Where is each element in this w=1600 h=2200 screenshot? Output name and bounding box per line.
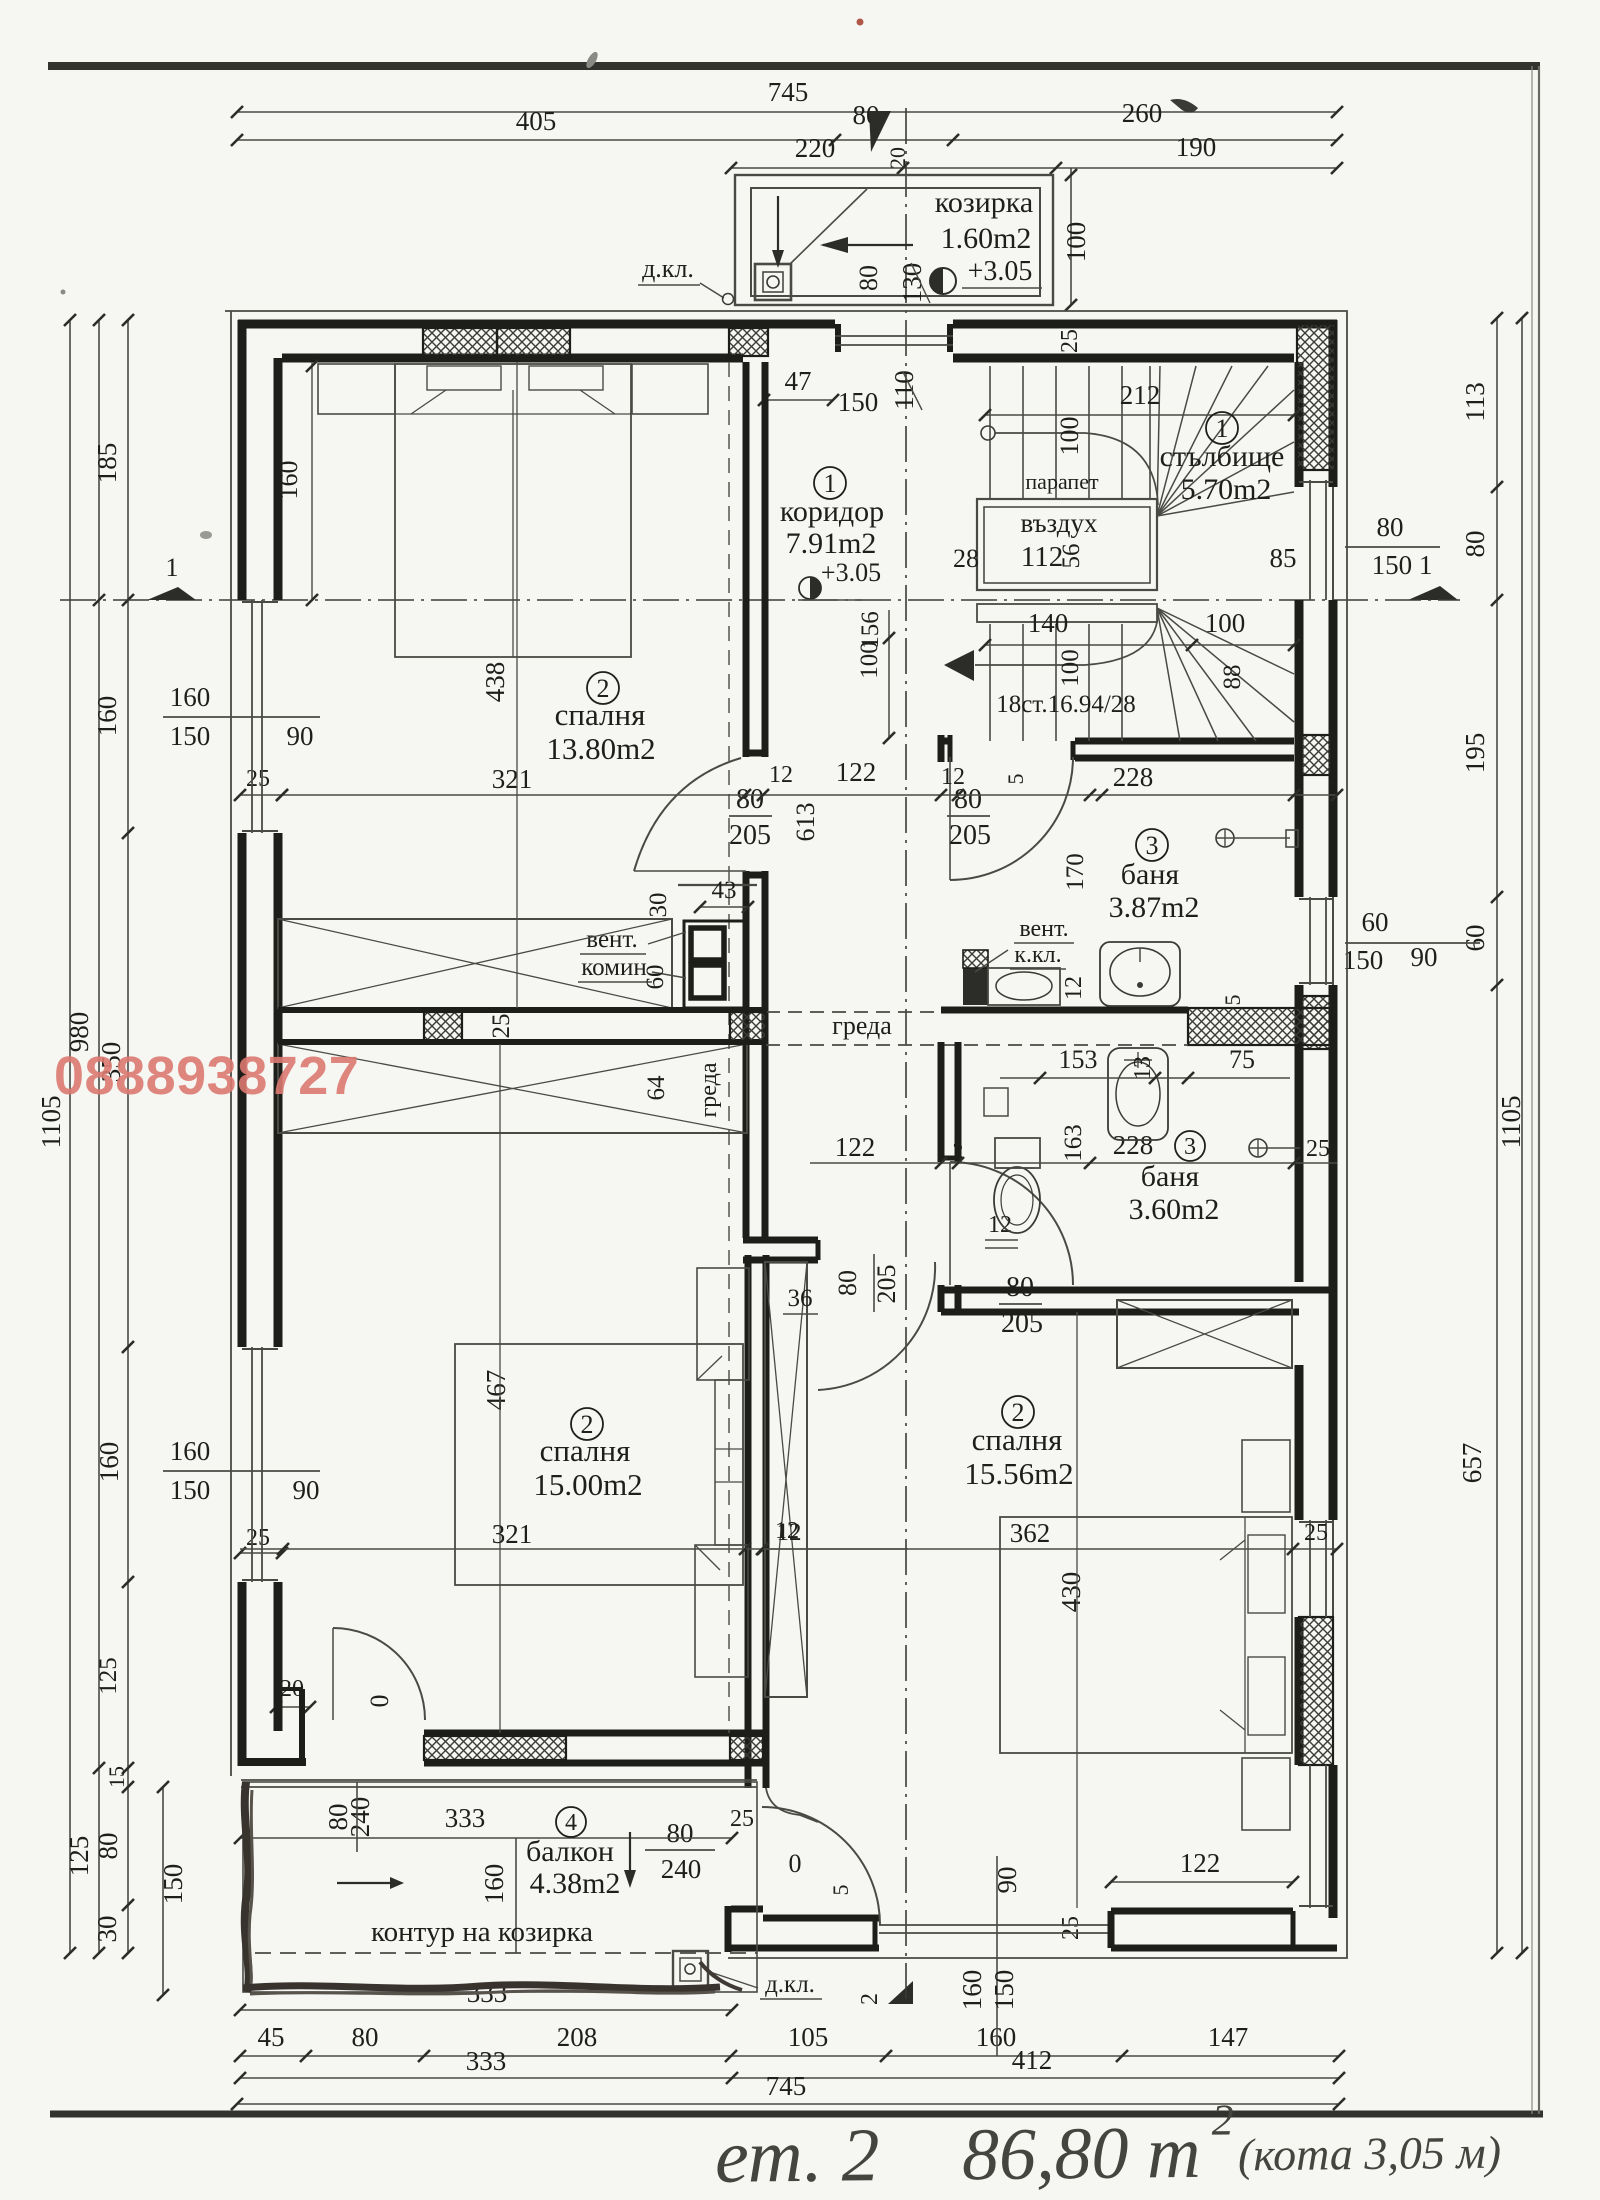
svg-text:греда: греда: [832, 1011, 892, 1040]
left window upper: [251, 600, 253, 833]
dim 47-150 under wall: [764, 399, 833, 401]
svg-text:30: 30: [645, 893, 672, 918]
balcony room label: [556, 1807, 586, 1837]
balcony pencil scribble bottom: [243, 1985, 720, 1989]
bath2 toilet: [995, 1138, 1040, 1168]
bath1 shower tap: [1216, 829, 1234, 847]
svg-text:150: 150: [989, 1970, 1019, 2011]
door arc bedroom15.56 entry: [818, 1262, 935, 1390]
corridor room label: [814, 467, 846, 499]
svg-text:15.56m2: 15.56m2: [964, 1456, 1073, 1491]
svg-text:185: 185: [92, 443, 122, 484]
section 1 right marker: [1408, 586, 1458, 600]
svg-text:220: 220: [795, 133, 836, 163]
svg-text:170: 170: [1062, 853, 1089, 891]
dim 333 balcony: [240, 1837, 732, 1839]
chimney flue 1: [691, 928, 724, 960]
svg-text:25: 25: [488, 1014, 515, 1039]
svg-text:13: 13: [1130, 1056, 1156, 1080]
svg-text:80: 80: [1460, 531, 1490, 558]
svg-text:5: 5: [828, 1885, 853, 1896]
wardrobe X bedroom15.00: [278, 1044, 747, 1133]
scan speck 1: [584, 50, 600, 70]
svg-text:195: 195: [1460, 733, 1490, 774]
bottom wall piece left of 15.56: [731, 1906, 763, 1913]
svg-text:163: 163: [1060, 1124, 1087, 1162]
section 2 top marker: [869, 111, 891, 152]
bed bedroom15.56: [1000, 1517, 1292, 1753]
svg-text:43: 43: [712, 877, 737, 904]
window label 60/150 90 right: [1345, 942, 1480, 944]
right wall inner face: [1295, 362, 1304, 487]
svg-text:2: 2: [1211, 2095, 1234, 2144]
stairwell room label: [1206, 412, 1238, 444]
chimney flue 2: [691, 965, 724, 998]
wall band between closets: [278, 1007, 766, 1013]
dim 100 corridor vertical: [888, 610, 890, 738]
balcony threshold lines: [241, 1779, 757, 1781]
central wall lower bedroom15.00: [745, 1255, 752, 1788]
canopy outer rect: [735, 175, 1053, 305]
svg-text:80: 80: [352, 2022, 379, 2052]
svg-text:парапет: парапет: [1025, 469, 1099, 494]
bath1 room label: [1136, 829, 1168, 861]
left wall outer face: [238, 320, 247, 600]
bath2 bottom wall: [941, 1287, 1333, 1294]
stair dim 140-100: [985, 644, 1294, 646]
svg-text:150 1: 150 1: [1372, 550, 1433, 580]
svg-text:405: 405: [516, 106, 557, 136]
bath2 sink: [1108, 1048, 1168, 1140]
outer contour line: [225, 311, 1347, 1958]
svg-text:110: 110: [889, 370, 919, 410]
svg-text:745: 745: [766, 2071, 807, 2101]
svg-text:321: 321: [492, 1519, 533, 1549]
svg-text:438: 438: [480, 662, 510, 703]
svg-text:321: 321: [492, 764, 533, 794]
svg-text:3: 3: [1146, 831, 1159, 860]
canopy vertical dim 100: [1070, 168, 1072, 305]
svg-text:коридор: коридор: [780, 495, 884, 528]
dim chain 405-80-260: [237, 139, 1337, 141]
svg-text:25: 25: [730, 1806, 754, 1832]
svg-text:стълбище: стълбище: [1160, 440, 1285, 473]
svg-text:467: 467: [481, 1370, 511, 1411]
section 2 bottom marker: [888, 1981, 913, 2004]
svg-text:160: 160: [170, 1436, 211, 1466]
svg-text:260: 260: [1122, 98, 1163, 128]
svg-text:4: 4: [565, 1810, 577, 1836]
bedroom15.00 dims 321-12: [240, 1548, 908, 1550]
balcony right arrow: [337, 1882, 392, 1884]
svg-text:2: 2: [857, 1993, 883, 2005]
top wall outer face: [238, 320, 835, 329]
rounded contour bottom of wall: [766, 1788, 818, 1822]
section 1 left marker: [147, 587, 196, 600]
svg-text:208: 208: [557, 2022, 598, 2052]
svg-text:125: 125: [95, 1657, 122, 1695]
bedroom1 room label: [587, 672, 619, 704]
svg-text:спалня: спалня: [540, 1433, 631, 1468]
left wall inner face: [274, 358, 283, 600]
svg-text:240: 240: [661, 1854, 702, 1884]
bath1 small sink on shaft: [988, 968, 1060, 1005]
left dim line 1105: [69, 320, 71, 1953]
kontur na kozirka dashed line: [255, 1952, 757, 1954]
canopy inner rect: [751, 188, 1040, 296]
balcony door threshold 15.56: [879, 1924, 1111, 1926]
svg-text:12: 12: [988, 1212, 1012, 1238]
svg-text:4.38m2: 4.38m2: [530, 1867, 621, 1900]
bath1 vent shaft: [963, 968, 988, 1005]
svg-text:комин: комин: [581, 954, 646, 981]
svg-text:228: 228: [1113, 1130, 1154, 1160]
svg-text:60: 60: [1362, 907, 1389, 937]
svg-text:баня: баня: [1121, 858, 1180, 891]
svg-text:15: 15: [104, 1766, 129, 1788]
right wall hatch pier beam: [1301, 996, 1331, 1049]
svg-text:150: 150: [838, 387, 879, 417]
border frame top line: [48, 62, 1540, 70]
svg-text:140: 140: [1028, 608, 1069, 638]
svg-text:2: 2: [953, 1138, 964, 1163]
nightstand 15.56 bottom: [1242, 1758, 1290, 1830]
beam hatch block: [1188, 1008, 1330, 1045]
svg-text:12: 12: [1061, 976, 1087, 1000]
svg-text:25: 25: [1306, 1136, 1330, 1162]
svg-text:45: 45: [258, 2022, 285, 2052]
svg-text:333: 333: [445, 1803, 486, 1833]
svg-text:90: 90: [1411, 942, 1438, 972]
svg-text:85: 85: [1270, 543, 1297, 573]
left dim chain 185-160-350-160-125-15-80-30: [127, 320, 129, 1953]
svg-text:спалня: спалня: [972, 1422, 1063, 1457]
svg-text:130: 130: [897, 263, 927, 304]
svg-text:122: 122: [836, 757, 877, 787]
stair walking line: [975, 433, 1158, 665]
canopy left arrow: [823, 244, 913, 246]
svg-text:въздух: въздух: [1021, 508, 1098, 538]
svg-text:745: 745: [768, 77, 809, 107]
svg-text:613: 613: [791, 803, 820, 842]
svg-text:80: 80: [667, 1818, 694, 1848]
bed bedroom1: [395, 364, 631, 657]
svg-text:1.60m2: 1.60m2: [941, 222, 1032, 255]
svg-text:контур на козирка: контур на козирка: [371, 1916, 593, 1948]
svg-text:105: 105: [788, 2022, 829, 2052]
bath2 toilet2 small: [984, 1088, 1008, 1116]
dim 80/240 fraction bottom: [645, 1849, 715, 1851]
door arc bath1: [950, 757, 1073, 880]
bath1 left jamb wall: [948, 735, 953, 762]
svg-text:90: 90: [293, 1475, 320, 1505]
svg-text:3.60m2: 3.60m2: [1129, 1193, 1220, 1226]
svg-text:112: 112: [1021, 541, 1063, 573]
svg-text:122: 122: [1180, 1848, 1221, 1878]
corridor axis dashed: [728, 362, 730, 1733]
svg-text:64: 64: [643, 1075, 670, 1101]
svg-text:333: 333: [466, 2046, 507, 2076]
stair treads upper flight: [989, 366, 991, 499]
dim 25 upper-left wall: [240, 794, 282, 796]
svg-text:86,80 m: 86,80 m: [962, 2112, 1201, 2196]
svg-text:657: 657: [1457, 1443, 1487, 1484]
svg-text:150: 150: [1343, 945, 1384, 975]
bottom wall piece right 15.56: [1111, 1908, 1293, 1915]
bedroom15.00 bottom wall hatches: [424, 1736, 566, 1760]
left dim 150 balcony: [162, 1787, 164, 1995]
bath dim 12-5-228: [958, 794, 1337, 796]
svg-text:100: 100: [1205, 608, 1246, 638]
svg-text:160: 160: [92, 696, 122, 737]
svg-text:д.кл.: д.кл.: [642, 254, 694, 283]
central wall bedroom1-corridor: [743, 362, 750, 757]
dim 25 lower-left wall: [240, 1552, 282, 1554]
svg-text:205: 205: [872, 1265, 901, 1304]
vent column bedroom15.00 upper: [697, 1268, 749, 1380]
svg-text:160: 160: [274, 461, 303, 500]
svg-text:80: 80: [854, 265, 883, 291]
svg-text:12: 12: [941, 764, 965, 790]
bath2 shower tap: [1249, 1139, 1267, 1157]
bedroom15.00 bottom wall: [424, 1730, 766, 1737]
bedroom15.56 room label: [1002, 1396, 1034, 1428]
bath2 dims 122-2-163-228-25: [810, 1162, 1337, 1164]
svg-text:1: 1: [824, 469, 837, 498]
top wall hatch pier mid: [729, 328, 768, 356]
bath2 left wall: [938, 1042, 945, 1162]
right wall hatch pier bedroom: [1299, 1617, 1333, 1765]
window label 160/150 90 upper: [163, 716, 320, 718]
svg-text:160: 160: [94, 1442, 124, 1483]
svg-text:150: 150: [170, 1475, 211, 1505]
chimney top line: [678, 884, 757, 886]
svg-text:вент.: вент.: [586, 926, 637, 953]
svg-text:100: 100: [1055, 417, 1084, 456]
svg-text:7.91m2: 7.91m2: [786, 527, 877, 560]
svg-text:+3.05: +3.05: [968, 256, 1033, 287]
svg-text:балкон: балкон: [526, 1835, 614, 1868]
svg-text:160: 160: [479, 1864, 509, 1905]
right wall outer face: [1332, 320, 1334, 1918]
svg-text:+3.05: +3.05: [821, 558, 881, 587]
svg-text:56: 56: [1058, 544, 1085, 569]
canopy down arrow: [777, 196, 779, 252]
svg-text:80: 80: [833, 1270, 862, 1296]
bath2 dims 153 13 75: [1000, 1077, 1290, 1079]
svg-text:15.00m2: 15.00m2: [533, 1467, 642, 1502]
bedroom right window lower: [1309, 1765, 1311, 1908]
beam dashed lines greda: [766, 1011, 941, 1013]
svg-text:88: 88: [1219, 665, 1246, 690]
scan speck 5: [61, 290, 66, 295]
vazduh opening parapet: [977, 499, 1157, 590]
svg-text:0888938727: 0888938727: [54, 1046, 359, 1106]
door arc bath2: [950, 1162, 1073, 1285]
svg-text:12: 12: [775, 1518, 799, 1544]
dim 122 bottom right: [1111, 1881, 1293, 1883]
svg-text:150: 150: [158, 1864, 188, 1905]
svg-text:ет. 2: ет. 2: [715, 2113, 880, 2199]
top wall hatch pier left: [423, 328, 497, 356]
nightstand 15.56 top: [1242, 1440, 1290, 1512]
stair winder fan upper: [1157, 366, 1160, 516]
door arc balcony 15.00: [333, 1628, 425, 1720]
svg-text:13.80m2: 13.80m2: [546, 731, 655, 766]
svg-text:25: 25: [246, 1525, 270, 1551]
svg-text:3.87m2: 3.87m2: [1109, 891, 1200, 924]
svg-text:430: 430: [1056, 1572, 1086, 1613]
svg-text:36: 36: [788, 1285, 813, 1312]
scan speck 3: [857, 19, 864, 26]
bedroom1 dim line 321-12-122: [282, 794, 958, 796]
stair direction arrow: [944, 650, 974, 681]
vent column bedroom15.00 lower: [695, 1545, 748, 1677]
canopy diagonal: [790, 189, 867, 264]
window label 160/150 90 lower: [163, 1470, 320, 1472]
parapet lower band: [977, 604, 1157, 622]
svg-text:5.70m2: 5.70m2: [1181, 473, 1272, 506]
svg-text:47: 47: [785, 366, 812, 396]
section line 1-1 horizontal: [60, 599, 1460, 601]
svg-text:25: 25: [1304, 1520, 1328, 1546]
svg-text:1: 1: [1216, 414, 1229, 443]
stair-bath wall horizontal: [941, 738, 952, 745]
svg-text:1: 1: [166, 553, 179, 582]
svg-text:30: 30: [92, 1916, 122, 1943]
corridor bottom wall: [743, 1237, 818, 1244]
dim 160 balcony vertical: [515, 1838, 517, 1953]
svg-text:греда: греда: [696, 1062, 722, 1117]
svg-text:240: 240: [345, 1797, 375, 1838]
svg-text:80: 80: [1377, 512, 1404, 542]
balcony drain bottom: [673, 1951, 708, 1988]
svg-text:12: 12: [769, 762, 793, 788]
svg-text:228: 228: [1113, 762, 1154, 792]
bath1 sink: [1100, 942, 1180, 1006]
svg-text:153: 153: [1059, 1045, 1098, 1074]
svg-text:3: 3: [1184, 1134, 1196, 1160]
svg-text:0: 0: [365, 1695, 394, 1708]
vent column bedroom15.00 strip: [715, 1380, 743, 1545]
stair dim 212: [985, 414, 1294, 416]
border frame right edge line: [1538, 66, 1540, 2114]
svg-text:362: 362: [1010, 1518, 1051, 1548]
balcony pencil scribble left: [245, 1782, 249, 1992]
svg-text:вент.: вент.: [1019, 916, 1068, 942]
svg-text:5: 5: [1220, 995, 1245, 1006]
left window lower: [251, 1347, 253, 1582]
svg-text:125: 125: [64, 1836, 94, 1877]
dim chain 45-80-208-105-160-147: [240, 2055, 1339, 2057]
balcony outline: [243, 1782, 757, 1992]
wardrobe X narrow corridor: [765, 1262, 807, 1697]
dim 160 bed rotated: [311, 362, 313, 600]
wardrobe X bedroom1: [278, 919, 672, 1008]
window label 80/150 1 right: [1345, 546, 1440, 548]
svg-text:28: 28: [953, 544, 979, 573]
svg-text:80: 80: [93, 1833, 123, 1860]
svg-text:150: 150: [170, 721, 211, 751]
left wall L-step bottom: [278, 1687, 302, 1691]
dim chain 220-190: [731, 167, 1337, 169]
bed bedroom15.00: [455, 1344, 743, 1585]
dim chain 745 bottom: [237, 2103, 1339, 2105]
svg-text:100: 100: [1057, 649, 1084, 687]
svg-text:90: 90: [992, 1867, 1022, 1894]
top wall inner face: [282, 354, 743, 363]
scan speck 2: [1170, 99, 1198, 113]
svg-text:к.кл.: к.кл.: [1014, 942, 1061, 968]
svg-text:80: 80: [1006, 1272, 1034, 1303]
entry door jambs and threshold: [835, 324, 841, 352]
dim chain 333 balcony bottom: [240, 2009, 732, 2011]
svg-text:75: 75: [1229, 1045, 1255, 1074]
right wall hatch pier stair: [1297, 324, 1335, 470]
svg-text:412: 412: [1012, 2045, 1053, 2075]
bath wall bath1 bottom: [941, 1007, 1188, 1014]
left dim line 980-125: [98, 320, 100, 1953]
svg-text:д.кл.: д.кл.: [765, 1971, 815, 1998]
svg-text:1105: 1105: [1496, 1096, 1526, 1149]
svg-text:25: 25: [246, 766, 270, 792]
svg-text:205: 205: [1001, 1308, 1043, 1339]
door arc balcony 15.56: [762, 1807, 880, 1925]
svg-text:60: 60: [642, 965, 669, 990]
right dim chain 113-80-195-60-657: [1496, 318, 1498, 1953]
door arc bedroom1: [634, 758, 741, 871]
svg-text:122: 122: [835, 1132, 876, 1162]
svg-text:100: 100: [856, 641, 883, 679]
wardrobe X bedroom15.56: [1117, 1300, 1292, 1368]
svg-text:60: 60: [1460, 925, 1490, 952]
svg-text:160: 160: [957, 1970, 987, 2011]
svg-text:100: 100: [1061, 222, 1091, 263]
svg-text:5: 5: [1003, 774, 1028, 785]
svg-text:160: 160: [170, 682, 211, 712]
bedroom15.00 room label: [571, 1408, 603, 1440]
svg-text:спалня: спалня: [555, 697, 646, 732]
scan speck 4: [200, 531, 212, 539]
border frame bottom line: [50, 2111, 1543, 2118]
dim chain 745 top: [237, 111, 1337, 113]
dim labels 90 160 150 bottom middle: [996, 1856, 998, 2056]
bedroom15.56 dims 362-25: [762, 1548, 1337, 1550]
bedroom right window upper: [1309, 1520, 1311, 1617]
right dim line 1105: [1521, 318, 1523, 1953]
handwritten floor note: [714, 2093, 1501, 2199]
svg-text:205: 205: [729, 820, 771, 851]
svg-text:90: 90: [287, 721, 314, 751]
dim 12 label underlined: [985, 1247, 1018, 1249]
svg-text:(кота 3,05 м): (кота 3,05 м): [1238, 2127, 1502, 2181]
svg-text:212: 212: [1120, 380, 1161, 410]
balcony down arrow: [629, 1832, 631, 1872]
stair treads lower flight: [989, 624, 991, 741]
svg-text:147: 147: [1208, 2022, 1249, 2052]
svg-text:козирка: козирка: [935, 186, 1033, 219]
svg-text:190: 190: [1176, 132, 1217, 162]
svg-text:113: 113: [1460, 382, 1490, 422]
chimney box: [684, 921, 748, 1008]
stair winder fan lower: [1157, 608, 1180, 741]
svg-text:160: 160: [976, 2022, 1017, 2052]
svg-text:0: 0: [789, 1849, 802, 1878]
section line 2-2 vertical: [905, 108, 907, 2006]
svg-text:баня: баня: [1141, 1160, 1200, 1193]
right wall hatch pier small: [1301, 735, 1331, 775]
bath window right: [1309, 897, 1311, 985]
